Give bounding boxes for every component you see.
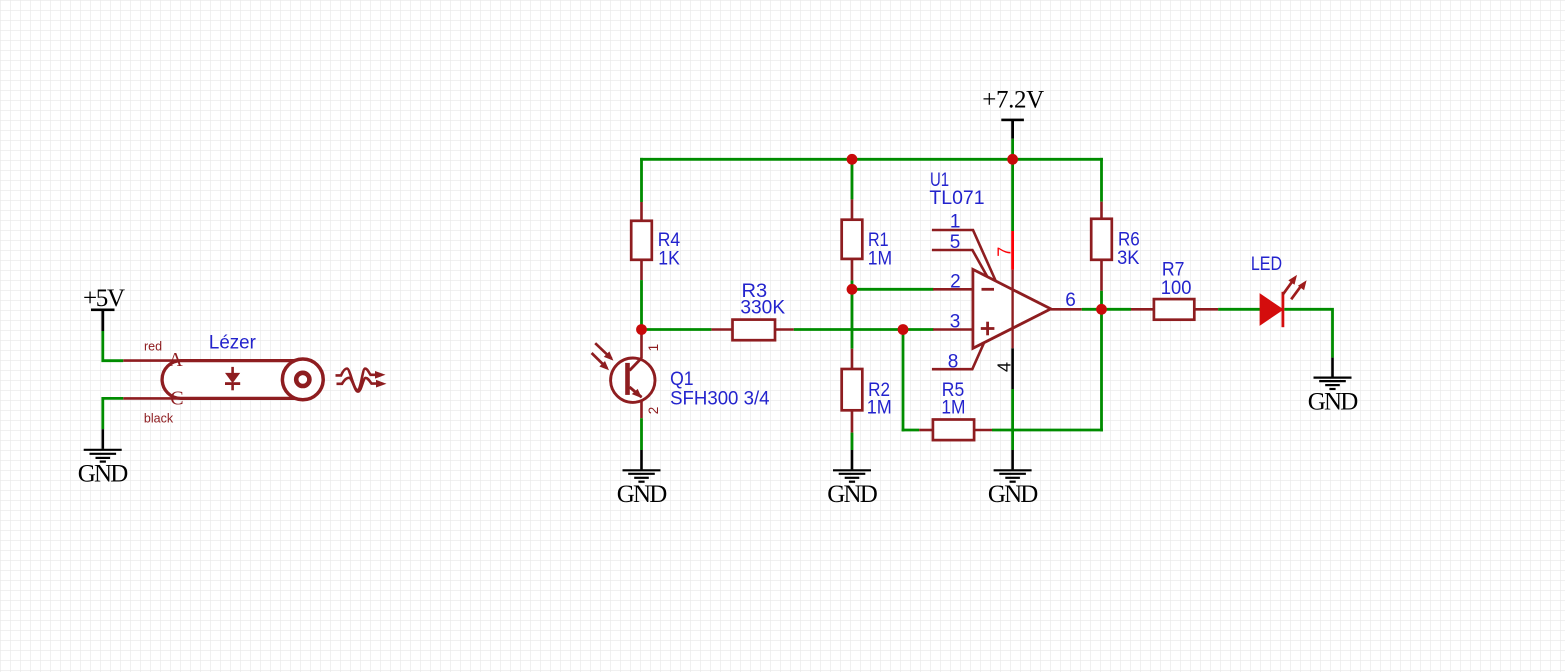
light arrows (595, 343, 611, 359)
svg-text:GND: GND (827, 481, 878, 508)
resistor R7 (1131, 299, 1218, 320)
svg-text:2: 2 (950, 271, 961, 292)
resistor R1 (842, 199, 863, 280)
svg-text:7: 7 (994, 247, 1014, 257)
svg-text:3K: 3K (1117, 248, 1140, 269)
supply +7.2V (982, 86, 1044, 138)
svg-text:Lézer: Lézer (209, 333, 257, 354)
junction node A (R4/Q1/R3) (636, 324, 647, 335)
wire rail to R4 (640, 158, 643, 202)
svg-text:C: C (170, 388, 183, 410)
wire laser cathode to ground (103, 398, 124, 429)
junction rail/R1 (847, 154, 858, 165)
wire node D to R7 (1102, 308, 1132, 311)
svg-text:+5V: +5V (83, 285, 125, 312)
plus sign (981, 327, 995, 330)
internal diode (225, 367, 240, 390)
svg-text:1K: 1K (658, 248, 680, 269)
pin 6 lead (1051, 308, 1082, 311)
laser beam arrows (336, 369, 387, 392)
wire LED to ground (1284, 309, 1332, 357)
svg-text:2: 2 (646, 407, 661, 415)
resistor R3 (711, 320, 793, 341)
svg-text:GND: GND (988, 481, 1039, 508)
wire V+ top rail (640, 158, 1103, 161)
wire R4 to node A (640, 280, 643, 329)
emission arrows (1283, 282, 1293, 295)
body circle (611, 358, 655, 402)
svg-text:TL071: TL071 (929, 188, 984, 209)
emitter pin (640, 397, 643, 418)
wire node C junction to R5 (vertical) (902, 330, 905, 432)
triangle body (973, 269, 1051, 348)
wire +7.2V to rail (1011, 139, 1014, 160)
wire right rail vertical (output to R5) (1100, 309, 1103, 431)
svg-text:6: 6 (1065, 290, 1076, 311)
ground GND (Q1) (617, 450, 668, 508)
laser LD1 (123, 349, 323, 410)
minus sign (982, 288, 995, 291)
pin 8 stub (932, 343, 984, 369)
ground GND (laser) (78, 429, 129, 487)
LED D1 (1260, 275, 1306, 327)
svg-text:Q1: Q1 (670, 369, 694, 390)
wire Q1 emitter to ground (640, 418, 643, 450)
pin 7 lead (red) (1011, 231, 1014, 270)
wire node A to R3 (642, 328, 712, 331)
svg-text:LED: LED (1251, 254, 1282, 275)
emitter arm with arrow (630, 387, 642, 397)
ground GND (R2) (827, 450, 878, 508)
svg-text:1M: 1M (867, 398, 892, 419)
supply +5V (83, 285, 125, 331)
svg-text:1M: 1M (868, 248, 892, 269)
wire R5 to right rail (992, 429, 1103, 432)
lens inner circle (296, 373, 309, 386)
pin 3 lead (933, 328, 973, 331)
wire R3 to op-amp pin 3 (794, 328, 934, 331)
svg-text:GND: GND (617, 481, 668, 508)
wire op-amp output to node D (1082, 308, 1102, 311)
pin 5 stub (932, 250, 988, 277)
pin 2 lead (933, 288, 973, 291)
collector pin (640, 330, 643, 359)
wire R6 to output node (1100, 291, 1103, 310)
wire R1 to node B (851, 280, 854, 289)
svg-text:A: A (168, 349, 183, 371)
junction node B (R1/R2/pin2) (847, 284, 858, 295)
resistor R5 (919, 420, 992, 441)
wire node B to op-amp pin 2 (852, 288, 934, 291)
wire R2 to ground (851, 433, 854, 450)
svg-text:100: 100 (1161, 278, 1192, 299)
resistor R6 (1091, 202, 1112, 291)
svg-text:4: 4 (995, 362, 1015, 372)
wire corner to R5 left (902, 429, 920, 432)
base bar (625, 363, 630, 395)
internal supply line (1011, 270, 1013, 349)
junction node D (output) (1096, 304, 1107, 315)
svg-text:5: 5 (950, 232, 961, 253)
svg-text:+7.2V: +7.2V (982, 86, 1044, 113)
cathode pin wire (123, 397, 182, 400)
op-amp U1 (932, 230, 1082, 389)
wire rail to R1 (851, 159, 854, 199)
svg-text:SFH300 3/4: SFH300 3/4 (670, 388, 770, 409)
wire op-amp pin 4 to ground (1011, 389, 1014, 450)
wire node B to R2 (851, 289, 854, 348)
svg-text:1: 1 (950, 212, 961, 233)
svg-text:330K: 330K (740, 298, 785, 319)
collector arm (630, 358, 642, 371)
wire rail to op-amp pin 7 (1011, 159, 1014, 231)
junction node C (pin3/R5) (898, 324, 909, 335)
svg-text:black: black (144, 411, 174, 425)
svg-text:1M: 1M (941, 398, 965, 419)
ground GND (LED) (1308, 358, 1359, 416)
wire rail to R6 (1100, 158, 1103, 202)
svg-text:3: 3 (950, 312, 961, 333)
lens outer circle (282, 359, 323, 400)
resistor R4 (631, 202, 652, 280)
svg-text:GND: GND (1308, 388, 1359, 415)
pin 4 lead (black) (1011, 348, 1014, 389)
wire +5V to laser anode (103, 331, 124, 361)
svg-text:red: red (144, 339, 162, 353)
svg-text:8: 8 (948, 351, 959, 372)
junction rail/+7.2V (1007, 154, 1018, 165)
wire R7 to LED (1218, 308, 1260, 311)
resistor R2 (842, 349, 863, 433)
pin 1 stub (932, 230, 996, 281)
anode pin wire (123, 359, 182, 362)
body outline (162, 361, 295, 399)
svg-text:1: 1 (646, 344, 661, 352)
ground GND (op-amp) (988, 450, 1039, 508)
svg-text:GND: GND (78, 461, 129, 488)
phototransistor Q1 (592, 330, 655, 419)
